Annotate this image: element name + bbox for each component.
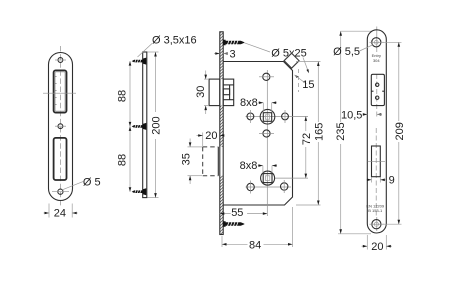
svg-text:200: 200 <box>151 116 163 134</box>
svg-text:35: 35 <box>181 153 193 165</box>
svg-text:30: 30 <box>195 86 207 98</box>
svg-text:B 153-1: B 153-1 <box>368 208 383 213</box>
svg-text:88: 88 <box>117 154 129 166</box>
svg-text:Ø 5: Ø 5 <box>83 176 101 188</box>
svg-text:88: 88 <box>117 90 129 102</box>
svg-text:9: 9 <box>389 174 395 186</box>
svg-text:304: 304 <box>373 58 380 63</box>
svg-text:72: 72 <box>301 133 313 145</box>
svg-text:165: 165 <box>313 123 325 141</box>
svg-text:235: 235 <box>335 122 347 140</box>
svg-text:3: 3 <box>230 49 236 61</box>
svg-text:20: 20 <box>371 241 383 253</box>
svg-text:8x8: 8x8 <box>240 160 258 172</box>
svg-text:8x8: 8x8 <box>240 97 258 109</box>
svg-text:15: 15 <box>302 79 314 91</box>
svg-text:Ø 5,5: Ø 5,5 <box>333 46 360 58</box>
svg-text:24: 24 <box>54 208 66 220</box>
svg-text:10,5: 10,5 <box>341 109 362 121</box>
svg-text:55: 55 <box>231 207 243 219</box>
svg-text:84: 84 <box>249 239 261 251</box>
svg-text:20: 20 <box>205 130 217 142</box>
svg-text:Ø 3,5x16: Ø 3,5x16 <box>152 35 197 47</box>
svg-text:209: 209 <box>394 122 406 140</box>
